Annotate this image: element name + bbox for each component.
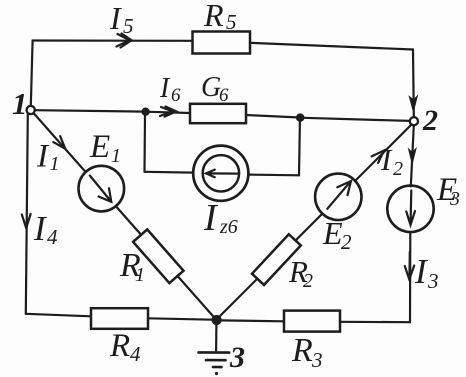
svg-text:4: 4	[47, 225, 58, 249]
resistor R5	[193, 32, 251, 54]
resistor R3	[284, 311, 340, 332]
svg-text:2: 2	[341, 230, 352, 254]
svg-text:1: 1	[135, 264, 145, 286]
emf source E3	[387, 186, 433, 232]
arrow inside E2 pointing up-right	[327, 182, 350, 209]
svg-text:3: 3	[449, 188, 460, 210]
current arrow I6	[160, 107, 173, 116]
svg-text:I: I	[33, 209, 48, 248]
svg-text:R: R	[109, 328, 130, 364]
wire: top rail left segment to R5	[33, 39, 193, 41]
wire: left side vertical	[26, 114, 28, 314]
emf source E1	[79, 166, 125, 212]
svg-text:3: 3	[427, 269, 439, 293]
svg-text:5: 5	[226, 10, 237, 34]
wire: right drop from top corner to node 2	[412, 50, 415, 117]
wire: node 2 down to E3	[411, 125, 414, 186]
junction B	[297, 114, 304, 121]
svg-text:2: 2	[303, 270, 313, 292]
resistor R2	[252, 234, 301, 285]
wire: node 3 to R3	[221, 319, 284, 322]
svg-text:3: 3	[311, 348, 323, 372]
svg-text:2: 2	[422, 104, 438, 137]
svg-text:I: I	[203, 197, 219, 239]
conductance G6	[190, 104, 246, 123]
svg-text:4: 4	[130, 342, 141, 366]
node 2	[410, 117, 418, 125]
resistor R1	[133, 229, 183, 283]
wire: right side vertical up to E3	[409, 231, 411, 323]
svg-text:5: 5	[123, 14, 134, 38]
arrow inside Iz6 pointing left	[208, 172, 238, 174]
resistor R4	[91, 308, 148, 329]
wire: left lead into source Iz6	[145, 171, 194, 174]
arrow inside E3 pointing down	[410, 191, 413, 223]
svg-text:2: 2	[393, 158, 403, 180]
wire: up to junction B	[298, 121, 301, 175]
current arrow I1	[53, 136, 65, 149]
wire: G6 to junction B	[246, 115, 297, 117]
current source Iz6 outer circle	[193, 146, 248, 201]
current arrow I4	[22, 214, 31, 228]
wire: junction A to G6	[149, 112, 190, 113]
arrowhead into node 2	[409, 96, 417, 112]
svg-text:E: E	[89, 129, 110, 165]
arrow inside E1 pointing down-right	[90, 176, 110, 200]
svg-text:R: R	[203, 0, 224, 33]
wire: top rail right segment from R5 to corner	[250, 43, 413, 50]
svg-text:I: I	[414, 252, 429, 291]
emf source E2	[315, 174, 361, 220]
svg-text:I: I	[109, 0, 122, 36]
svg-text:I: I	[380, 142, 393, 177]
svg-text:1: 1	[12, 86, 28, 121]
wire: right lead from source Iz6	[248, 174, 299, 177]
wire: diagonal node3 to node2	[217, 125, 412, 320]
current source Iz6 inner circle	[203, 155, 239, 191]
arrowhead toward E3	[409, 149, 416, 164]
svg-text:1: 1	[111, 145, 121, 167]
svg-text:I: I	[159, 73, 171, 104]
svg-text:I: I	[36, 139, 50, 175]
ground stub	[215, 324, 217, 352]
ground bar 1	[199, 351, 230, 354]
wire: R3 to bottom right corner	[340, 321, 410, 324]
current arrow I2	[372, 151, 384, 163]
ground bar 3	[213, 366, 222, 369]
node 1	[27, 106, 35, 114]
wire: diagonal node1 to node3	[34, 113, 217, 320]
svg-text:R: R	[291, 332, 313, 369]
svg-text:6: 6	[219, 85, 229, 106]
current arrow I5	[117, 34, 130, 47]
svg-text:3: 3	[229, 341, 245, 374]
wire: junction A down	[143, 115, 146, 172]
wire: junction B to node 2	[304, 118, 410, 121]
wire: bottom left segment	[26, 314, 91, 317]
wire: node1 up to top rail	[31, 41, 33, 107]
ground bar 2	[206, 359, 226, 362]
current arrow I3	[408, 252, 411, 279]
ground dot	[215, 372, 218, 375]
node 3	[212, 316, 221, 325]
svg-text:z6: z6	[219, 216, 238, 238]
junction A	[142, 108, 149, 115]
svg-text:1: 1	[50, 153, 60, 175]
svg-text:E: E	[322, 215, 343, 251]
wire: R4 to node 3	[148, 318, 213, 319]
wire: node1 to junction A	[35, 110, 143, 111]
svg-text:6: 6	[171, 85, 181, 106]
